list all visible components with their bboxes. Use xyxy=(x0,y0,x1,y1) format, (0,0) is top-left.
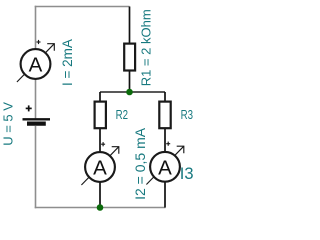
wire R2 to I2 xyxy=(99,128,101,152)
svg-text:I3: I3 xyxy=(180,165,194,183)
node junction at R1 bottom xyxy=(126,89,133,96)
wire bottom horizontal xyxy=(35,207,166,209)
wire R3 to I3 xyxy=(164,128,166,152)
wire R1 bottom lead xyxy=(129,71,131,93)
svg-text:R1 = 2 kOhm: R1 = 2 kOhm xyxy=(139,9,154,86)
svg-text:A: A xyxy=(158,156,172,179)
wire I3 to bottom xyxy=(164,182,166,208)
resistor R3 xyxy=(159,102,170,129)
svg-text:A: A xyxy=(93,157,107,180)
svg-text:U = 5 V: U = 5 V xyxy=(1,102,16,146)
wire R1 top lead xyxy=(129,7,131,44)
node junction bottom xyxy=(97,204,104,211)
resistor R1 xyxy=(124,44,135,71)
svg-text:R2: R2 xyxy=(116,107,128,122)
ammeter I2 xyxy=(81,142,118,185)
wire R3 top lead xyxy=(164,92,166,102)
wire top horizontal xyxy=(35,6,130,8)
ammeter I3 xyxy=(146,142,183,185)
wire middle horizontal xyxy=(100,91,165,93)
wire R2 top lead xyxy=(99,92,101,102)
wire I2 to node xyxy=(99,182,101,208)
svg-text:I2 = 0,5 mA: I2 = 0,5 mA xyxy=(132,127,148,200)
svg-text:I = 2mA: I = 2mA xyxy=(60,39,75,86)
wire left rail lower xyxy=(35,126,37,208)
ammeter A1 xyxy=(17,40,54,82)
svg-text:R3: R3 xyxy=(181,107,193,122)
wire left rail upper xyxy=(35,6,37,49)
battery V1 xyxy=(23,105,51,123)
wire left rail middle xyxy=(35,79,37,119)
svg-text:A: A xyxy=(29,54,43,77)
resistor R2 xyxy=(95,102,106,129)
